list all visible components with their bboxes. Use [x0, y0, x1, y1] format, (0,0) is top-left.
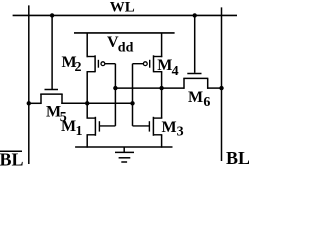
wire Vdd rail	[74, 32, 175, 34]
transistor M5 (NMOS access, left)	[40, 90, 63, 105]
svg-text:6: 6	[203, 95, 210, 110]
wire WL (word line, horizontal top rail)	[13, 14, 237, 16]
ground symbol	[115, 147, 134, 162]
wire Vdd to M2 source	[86, 33, 88, 57]
wire Vdd to M4 source	[161, 33, 163, 57]
svg-text:4: 4	[172, 64, 179, 79]
wire M4 gate lead	[133, 63, 144, 65]
node junction WL/M5-gate	[50, 13, 54, 17]
svg-text:WL: WL	[110, 0, 135, 16]
wire WL to M6 gate	[194, 15, 196, 72]
svg-text:3: 3	[177, 124, 184, 139]
svg-text:M: M	[61, 118, 76, 135]
svg-text:M: M	[162, 119, 177, 136]
svg-text:2: 2	[75, 60, 82, 75]
transistor M1 (NMOS pull-down, left)	[87, 117, 116, 136]
svg-text:BL: BL	[226, 148, 249, 168]
wire BLbar bit line (left vertical)	[28, 5, 30, 164]
wire ground rail	[75, 146, 172, 148]
node junction Qbar/right-column	[159, 86, 163, 90]
svg-text:dd: dd	[118, 40, 134, 55]
wire node Qbar horizontal (left segment, to M6)	[115, 87, 184, 89]
transistor M3 (NMOS pull-down, right)	[133, 117, 163, 136]
wire M1 source to ground rail	[86, 135, 88, 148]
wire M2 drain to M1 drain (node Q column)	[86, 72, 88, 119]
svg-text:M: M	[188, 89, 203, 106]
node junction Q/gate-vertical	[130, 101, 134, 105]
node junction Qbar/gate-vertical	[113, 86, 117, 90]
wire M3 source to ground rail	[161, 135, 163, 148]
transistor M2 (PMOS pull-up, left)	[87, 55, 105, 72]
node junction Qbar/BL	[219, 86, 223, 90]
wire WL to M5 gate	[51, 15, 53, 89]
wire BL bit line (right vertical)	[221, 7, 223, 161]
node junction Q/left-column	[85, 101, 89, 105]
wire right cross-coupling vertical (M4/M3 gates to node Q)	[132, 64, 134, 126]
label BLbar (left bit line, with overline)	[0, 150, 22, 152]
wire M5 to node Q (right segment)	[61, 102, 132, 104]
svg-text:M: M	[157, 57, 172, 74]
wire BLbar to M5 (node Q left segment)	[29, 102, 42, 104]
svg-text:1: 1	[76, 124, 83, 139]
node junction WL/M6-gate	[193, 13, 197, 17]
transistor M6 (NMOS access, right)	[183, 74, 208, 89]
wire node Qbar to BL (right of M6)	[207, 87, 221, 89]
svg-text:BL: BL	[0, 149, 24, 169]
transistor M4 (PMOS pull-up, right)	[143, 55, 162, 72]
wire left cross-coupling vertical (M2/M1 gates to node Qbar)	[114, 64, 116, 126]
node junction BLbar/M5	[27, 101, 31, 105]
wire M4 drain to M3 drain (node Qbar column)	[161, 72, 163, 119]
wire M2 gate lead	[105, 63, 116, 65]
